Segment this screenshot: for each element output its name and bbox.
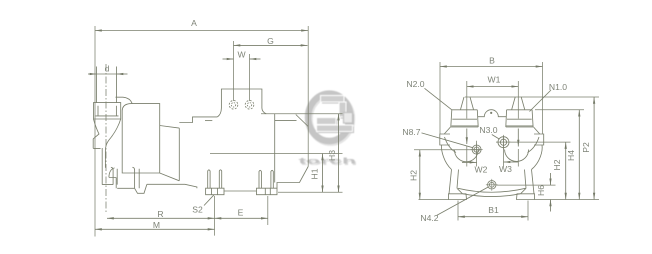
svg-text:H3: H3 xyxy=(327,150,337,161)
svg-text:P2: P2 xyxy=(581,142,591,153)
svg-text:B1: B1 xyxy=(488,205,499,215)
svg-text:R: R xyxy=(157,209,163,219)
svg-text:A: A xyxy=(191,18,197,28)
svg-text:G: G xyxy=(267,36,274,46)
svg-text:W2: W2 xyxy=(475,165,488,175)
svg-text:H4: H4 xyxy=(566,150,576,161)
svg-text:W1: W1 xyxy=(488,75,501,85)
svg-text:H2: H2 xyxy=(552,159,562,170)
svg-text:M: M xyxy=(153,220,160,230)
svg-text:E: E xyxy=(238,208,244,218)
svg-text:N2.0: N2.0 xyxy=(406,79,424,89)
svg-text:S2: S2 xyxy=(192,204,203,214)
svg-text:N3.0: N3.0 xyxy=(479,125,497,135)
svg-text:N1.0: N1.0 xyxy=(549,82,567,92)
svg-text:d: d xyxy=(105,63,110,73)
svg-text:N4.2: N4.2 xyxy=(420,213,438,223)
svg-text:N8.7: N8.7 xyxy=(402,127,420,137)
svg-text:H2: H2 xyxy=(409,170,419,181)
svg-text:B: B xyxy=(489,55,495,65)
svg-text:W3: W3 xyxy=(499,164,512,174)
svg-text:H6: H6 xyxy=(536,185,546,196)
svg-text:W: W xyxy=(237,50,246,60)
svg-text:H1: H1 xyxy=(309,168,319,179)
